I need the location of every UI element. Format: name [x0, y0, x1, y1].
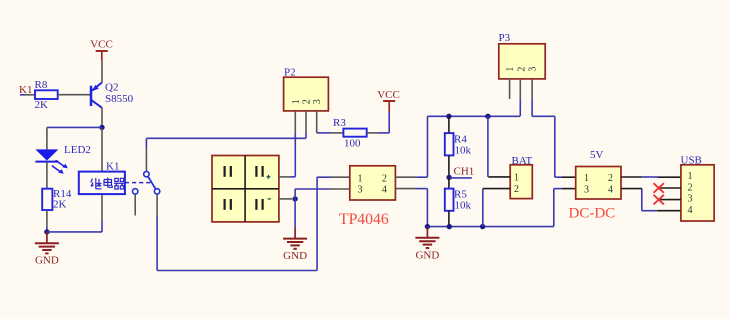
svg-text:3: 3 — [528, 67, 539, 72]
pin battery + — [279, 176, 290, 178]
no-connect X on USB.3 — [654, 195, 664, 205]
pin P2.3 — [316, 111, 318, 133]
svg-text:4: 4 — [382, 184, 387, 195]
junction battery minus node — [292, 196, 297, 201]
resistor R8 — [35, 79, 58, 111]
wire Q2 collector down — [101, 108, 103, 128]
wire collector node to relay coil — [101, 129, 103, 172]
svg-text:3: 3 — [584, 184, 589, 195]
junction R4 top — [446, 114, 451, 119]
pin R5 bottom — [448, 211, 450, 227]
wire 5V pin4 to USB pin4 — [621, 189, 681, 211]
junction bottom rail at R5 — [447, 224, 452, 229]
connector USB — [681, 155, 715, 222]
connector P2 — [284, 67, 329, 111]
pin switch NC stub — [134, 194, 136, 215]
junction bottom rail at GND — [425, 224, 430, 229]
IC TP4046 — [350, 166, 396, 200]
pin BAT.1 and riser to top rail — [488, 116, 510, 177]
wire switch common down — [156, 194, 158, 270]
wire P2.2 down to switch wire — [305, 133, 307, 138]
svg-text:TP4046: TP4046 — [339, 211, 389, 228]
wire TP4046 pin2 up to top rail — [395, 116, 427, 177]
junction GND node left — [44, 229, 49, 234]
svg-text:1: 1 — [291, 99, 302, 104]
svg-text:2: 2 — [302, 99, 313, 104]
svg-text:4: 4 — [608, 184, 613, 195]
ground GND (left) — [35, 232, 59, 267]
connector P3 — [499, 32, 546, 79]
svg-text:2: 2 — [514, 184, 519, 195]
svg-text:P2: P2 — [284, 67, 296, 79]
svg-text:2: 2 — [688, 182, 693, 193]
wire bottom run to TP4046 pin1 — [157, 177, 350, 271]
wire battery - to TP4046 pin3 — [295, 189, 350, 199]
wire switch top from horizontal — [145, 138, 147, 171]
svg-text:1: 1 — [505, 67, 516, 72]
svg-text:2: 2 — [516, 67, 527, 72]
wire P2.3 to R3 — [317, 132, 344, 134]
resistor R4 — [445, 133, 472, 156]
svg-text:P3: P3 — [499, 32, 511, 44]
wire R3 to VCC — [367, 112, 390, 133]
wire battery - to GND — [294, 199, 296, 228]
svg-text:3: 3 — [358, 184, 363, 195]
svg-text:VCC: VCC — [377, 89, 400, 101]
transistor Q2 S8550 — [91, 82, 134, 108]
pin USB.3 stub (no connect) — [658, 199, 681, 201]
relay label 继电器 (drawn strokes) — [91, 178, 125, 190]
svg-text:R3: R3 — [333, 117, 346, 129]
wire R4 to CH1 node — [448, 155, 450, 177]
no-connect X on USB.2 — [654, 183, 664, 193]
wire down to LED2 anode — [46, 127, 48, 149]
connector BAT — [510, 155, 532, 199]
wire top rail — [428, 115, 521, 117]
svg-text:VCC: VCC — [90, 39, 113, 51]
svg-text:2K: 2K — [35, 99, 49, 111]
wire R14 to GND node — [46, 210, 48, 232]
junction CH1 — [446, 175, 451, 180]
wire P3.2 down to top rail — [519, 99, 521, 116]
battery holder (4-pad) — [212, 156, 279, 222]
ground GND (middle) — [283, 228, 307, 263]
svg-text:DC-DC: DC-DC — [569, 206, 616, 222]
svg-text:K1: K1 — [106, 161, 119, 173]
pin P2.1 — [294, 111, 296, 133]
svg-text:Q2: Q2 — [105, 82, 118, 94]
svg-text:5V: 5V — [590, 149, 604, 161]
wire K1 to R8 — [20, 94, 35, 96]
power VCC (left, at Q2 emitter) — [90, 39, 113, 61]
pin P3.3 — [531, 79, 533, 99]
junction bottom rail at BAT- riser — [480, 224, 485, 229]
junction BAT+ riser — [485, 114, 490, 119]
wire Q2 emitter to VCC — [101, 60, 103, 82]
pin USB.2 stub (no connect) — [658, 187, 681, 189]
svg-text:2: 2 — [382, 174, 387, 185]
node CH1 (net label + stub) — [449, 166, 474, 178]
wire P3.3 to 5V pin1 — [532, 99, 576, 177]
svg-text:2K: 2K — [53, 199, 67, 211]
wire collector node to LED branch — [47, 126, 102, 128]
LED D LED2 — [35, 144, 90, 174]
wire switch top to P2 pin2 — [146, 137, 306, 139]
pin battery - — [279, 198, 292, 200]
resistor R14 — [42, 188, 72, 211]
svg-text:3: 3 — [312, 99, 323, 104]
wire TP4046 pin4 down to bottom rail — [395, 189, 427, 227]
resistor R5 — [445, 177, 472, 211]
wire P2.1 down to battery + — [290, 133, 295, 177]
svg-text:LED2: LED2 — [64, 144, 91, 156]
pin P3.1 stub — [509, 79, 511, 99]
pin P3.2 — [519, 79, 521, 99]
svg-text:10k: 10k — [455, 200, 472, 212]
resistor R3 — [333, 117, 367, 150]
svg-text:1: 1 — [358, 174, 363, 185]
relay dashed link — [125, 182, 152, 184]
switch K1 contacts — [133, 171, 160, 194]
svg-text:S8550: S8550 — [105, 93, 134, 105]
svg-text:4: 4 — [688, 205, 693, 216]
pin R4 top — [448, 116, 450, 133]
svg-text:BAT: BAT — [512, 155, 533, 167]
svg-text:2: 2 — [608, 173, 613, 184]
relay K1 coil — [79, 161, 125, 195]
svg-text:1: 1 — [688, 171, 693, 182]
junction collector node — [99, 125, 104, 130]
pin P2.2 — [305, 111, 307, 133]
svg-text:1: 1 — [514, 173, 519, 184]
wire bottom rail up to 5V pin3 — [554, 189, 576, 227]
svg-text:R8: R8 — [35, 79, 48, 91]
ground GND (right) — [415, 227, 439, 261]
svg-text:USB: USB — [681, 155, 702, 167]
svg-text:1: 1 — [584, 173, 589, 184]
svg-text:CH1: CH1 — [454, 166, 475, 178]
wire bottom rail — [427, 226, 553, 228]
wire R8 to Q2 base — [58, 94, 90, 96]
svg-text:3: 3 — [688, 194, 693, 205]
module 5V DC-DC — [576, 149, 621, 199]
wire relay coil to GND node — [47, 194, 102, 232]
power VCC (right, at R3) — [377, 89, 400, 112]
pin BAT.2 and riser to bottom rail — [483, 189, 510, 227]
svg-text:10k: 10k — [455, 145, 472, 157]
wire 5V pin2 to USB pin1 — [621, 176, 681, 178]
svg-text:100: 100 — [344, 138, 361, 150]
wire LED2 cathode to R14 — [46, 162, 48, 189]
